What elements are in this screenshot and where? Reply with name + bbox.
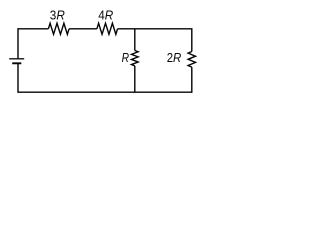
wire: resistor R down to node B on bottom wire: [134, 66, 136, 92]
svg-text:R: R: [122, 50, 130, 65]
wire: battery positive terminal up left edge and across to resistor 3R: [18, 29, 48, 58]
wire: node A down to resistor R (middle branch): [134, 29, 136, 51]
svg-text:2R: 2R: [167, 50, 182, 65]
resistor R2 value 4R (top right zigzag): [97, 23, 118, 34]
wire: resistor 4R to top-right corner, through node A, down to resistor 2R: [118, 29, 192, 52]
resistor R3 value R (middle vertical zigzag): [132, 51, 139, 66]
svg-text:4R: 4R: [98, 8, 113, 23]
wire: resistor 2R down right edge, along bottom through node B, up to battery negative terminal: [18, 63, 192, 92]
svg-text:3R: 3R: [50, 8, 65, 23]
resistor R1 value 3R (top left zigzag): [48, 23, 69, 34]
battery B1 (cell, left side): [9, 59, 24, 64]
wire: between resistor 3R and resistor 4R: [69, 28, 97, 30]
resistor R4 value 2R (right vertical zigzag on right edge): [188, 52, 195, 68]
